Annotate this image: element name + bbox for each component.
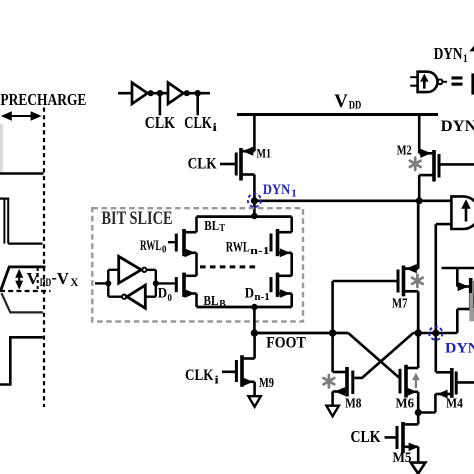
svg-text:B: B [219,299,226,310]
svg-text:D: D [245,286,254,302]
svg-text:n-1: n-1 [250,246,270,257]
svg-text:CLK: CLK [185,367,214,384]
svg-text:CLK: CLK [145,113,175,132]
svg-text:V: V [27,269,40,288]
svg-text:n-1: n-1 [254,292,269,303]
svg-text:0: 0 [162,245,167,256]
svg-text:PRECHARGE: PRECHARGE [0,90,86,109]
svg-text:V: V [57,269,69,288]
svg-text:0: 0 [168,293,172,304]
svg-text:M1: M1 [257,146,272,161]
svg-text:CLK: CLK [188,155,217,172]
svg-text:RWL: RWL [140,238,162,254]
svg-text:M4: M4 [446,397,463,412]
svg-text:M6: M6 [396,397,415,412]
svg-text:CLK: CLK [184,113,212,132]
svg-text:V: V [334,91,348,112]
svg-text:1: 1 [291,188,297,199]
svg-text:M5: M5 [393,450,412,466]
svg-text:1: 1 [463,53,468,65]
svg-text:DD: DD [40,275,52,289]
svg-text:DYN: DYN [263,182,290,198]
svg-text:M9: M9 [259,376,274,391]
svg-text:CLK: CLK [351,427,382,446]
svg-text:T: T [219,223,225,234]
svg-text:BL: BL [204,218,219,233]
svg-text:RWL: RWL [226,240,250,256]
svg-text:DD: DD [349,100,362,112]
svg-text:BL: BL [204,293,219,308]
svg-text:D: D [158,286,167,302]
svg-text:M2: M2 [397,144,412,159]
svg-text:FOOT: FOOT [266,335,306,352]
svg-text:DYN: DYN [441,118,474,135]
svg-text:DYN: DYN [434,44,463,63]
svg-text:X: X [70,277,79,289]
svg-text:DYN: DYN [445,341,474,357]
svg-text:M8: M8 [345,397,362,412]
svg-text:BIT SLICE: BIT SLICE [102,209,173,229]
svg-text:M7: M7 [392,297,408,312]
